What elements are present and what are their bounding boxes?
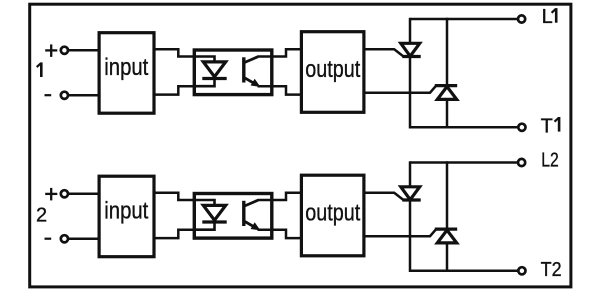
channel 2 label "2" [36,205,47,227]
svg-text:L2: L2 [541,150,559,172]
terminal circle + (channel 2) [61,190,68,197]
phototransistor emitter with arrow (channel 2) [244,221,259,230]
SCR2 thyristor, anode down (channel 1) [435,86,457,100]
svg-text:output: output [305,56,360,83]
plus sign (channel 2 input +) [45,188,57,201]
wire right rail lower segment (channel 2) [446,243,449,272]
wire input block to optocoupler cathode pin (channel 1) [154,86,195,94]
optocoupler LED cathode internal wire (channel 2) [194,222,214,230]
wire input block to optocoupler anode pin (channel 1) [154,49,195,56]
wire output block to SCR1 gate (channel 1) [364,49,403,56]
wire optocoupler emitter pin to output block (channel 2) [258,230,302,238]
wire optocoupler collector pin to output block (channel 2) [258,193,302,200]
input block (channel 1) [99,33,154,114]
phototransistor collector (channel 1) [244,57,258,63]
label L1 [542,6,557,28]
SCR1 thyristor, anode up (channel 2) [401,187,421,200]
optocoupler LED anode internal wire (channel 1) [194,57,214,63]
wire optocoupler collector pin to output block (channel 1) [258,49,302,56]
wire + terminal to input block (channel 2) [69,193,99,196]
wire right rail upper segment (channel 2) [446,161,449,229]
optocoupler LED triangle (channel 1) [203,62,225,77]
optocoupler LED cathode bar (channel 1) [202,77,226,80]
wire top rail to L1 (channel 1) [410,18,518,21]
terminal circle + (channel 1) [61,47,68,54]
label L2 [541,150,559,172]
wire output block to SCR2 gate, crosses left rail (channel 2) [364,229,436,236]
wire - terminal to input block (channel 2) [69,238,99,241]
minus sign (channel 1 input -) [45,94,52,96]
wire input block to optocoupler cathode pin (channel 2) [154,230,195,238]
wire - terminal to input block (channel 1) [69,94,99,97]
svg-text:2: 2 [36,205,47,227]
phototransistor emitter with arrow (channel 1) [244,78,259,87]
svg-text:T2: T2 [541,259,562,281]
channel 1 label "1" [37,62,42,77]
svg-text:L: L [542,6,553,28]
optocoupler package (channel 1) [194,50,271,95]
phototransistor collector (channel 2) [244,200,258,206]
minus sign (channel 2 input -) [45,238,52,240]
output block (channel 2) [301,175,364,256]
terminal circle L1 (channel 1) [518,15,525,22]
wire top rail to L2 (channel 2) [410,161,518,164]
wire bottom rail to T1 (channel 1) [410,126,519,129]
wire left rail upper segment (channel 1) [409,18,412,44]
terminal circle T2 (channel 2) [518,267,525,274]
optocoupler LED cathode bar (channel 2) [202,220,226,223]
wire left rail lower segment (channel 2) [409,200,412,272]
wire right rail lower segment (channel 1) [446,99,449,128]
svg-text:output: output [305,200,360,227]
terminal circle - (channel 2) [61,235,68,242]
svg-text:T: T [541,115,553,137]
terminal circle T1 (channel 1) [518,124,525,131]
plus sign (channel 1 input +) [45,44,57,57]
wire output block to SCR2 gate, crosses left rail (channel 1) [364,86,436,93]
SCR1 thyristor, anode up (channel 1) [401,43,421,56]
input block (channel 2) [99,176,154,257]
output block (channel 1) [301,32,364,113]
wire optocoupler emitter pin to output block (channel 1) [258,86,302,94]
svg-text:input: input [104,54,148,81]
optocoupler LED triangle (channel 2) [203,205,225,220]
terminal circle - (channel 1) [61,92,68,99]
optocoupler package (channel 2) [194,194,271,239]
optocoupler LED cathode internal wire (channel 1) [194,78,214,86]
wire bottom rail to T2 (channel 2) [410,270,519,273]
wire left rail upper segment (channel 2) [409,161,412,187]
phototransistor base bar (channel 2) [242,201,245,226]
terminal circle L2 (channel 2) [518,159,525,166]
wire left rail lower segment (channel 1) [409,56,412,128]
svg-text:input: input [104,198,148,225]
label T2 [541,259,562,281]
wire + terminal to input block (channel 1) [69,49,99,52]
optocoupler LED anode internal wire (channel 2) [194,200,214,206]
label T1 [541,115,560,137]
wire input block to optocoupler anode pin (channel 2) [154,193,195,200]
wire output block to SCR1 gate (channel 2) [364,193,403,200]
SCR2 thyristor, anode down (channel 2) [435,229,457,243]
wire right rail upper segment (channel 1) [446,18,449,86]
phototransistor base bar (channel 1) [242,57,245,82]
